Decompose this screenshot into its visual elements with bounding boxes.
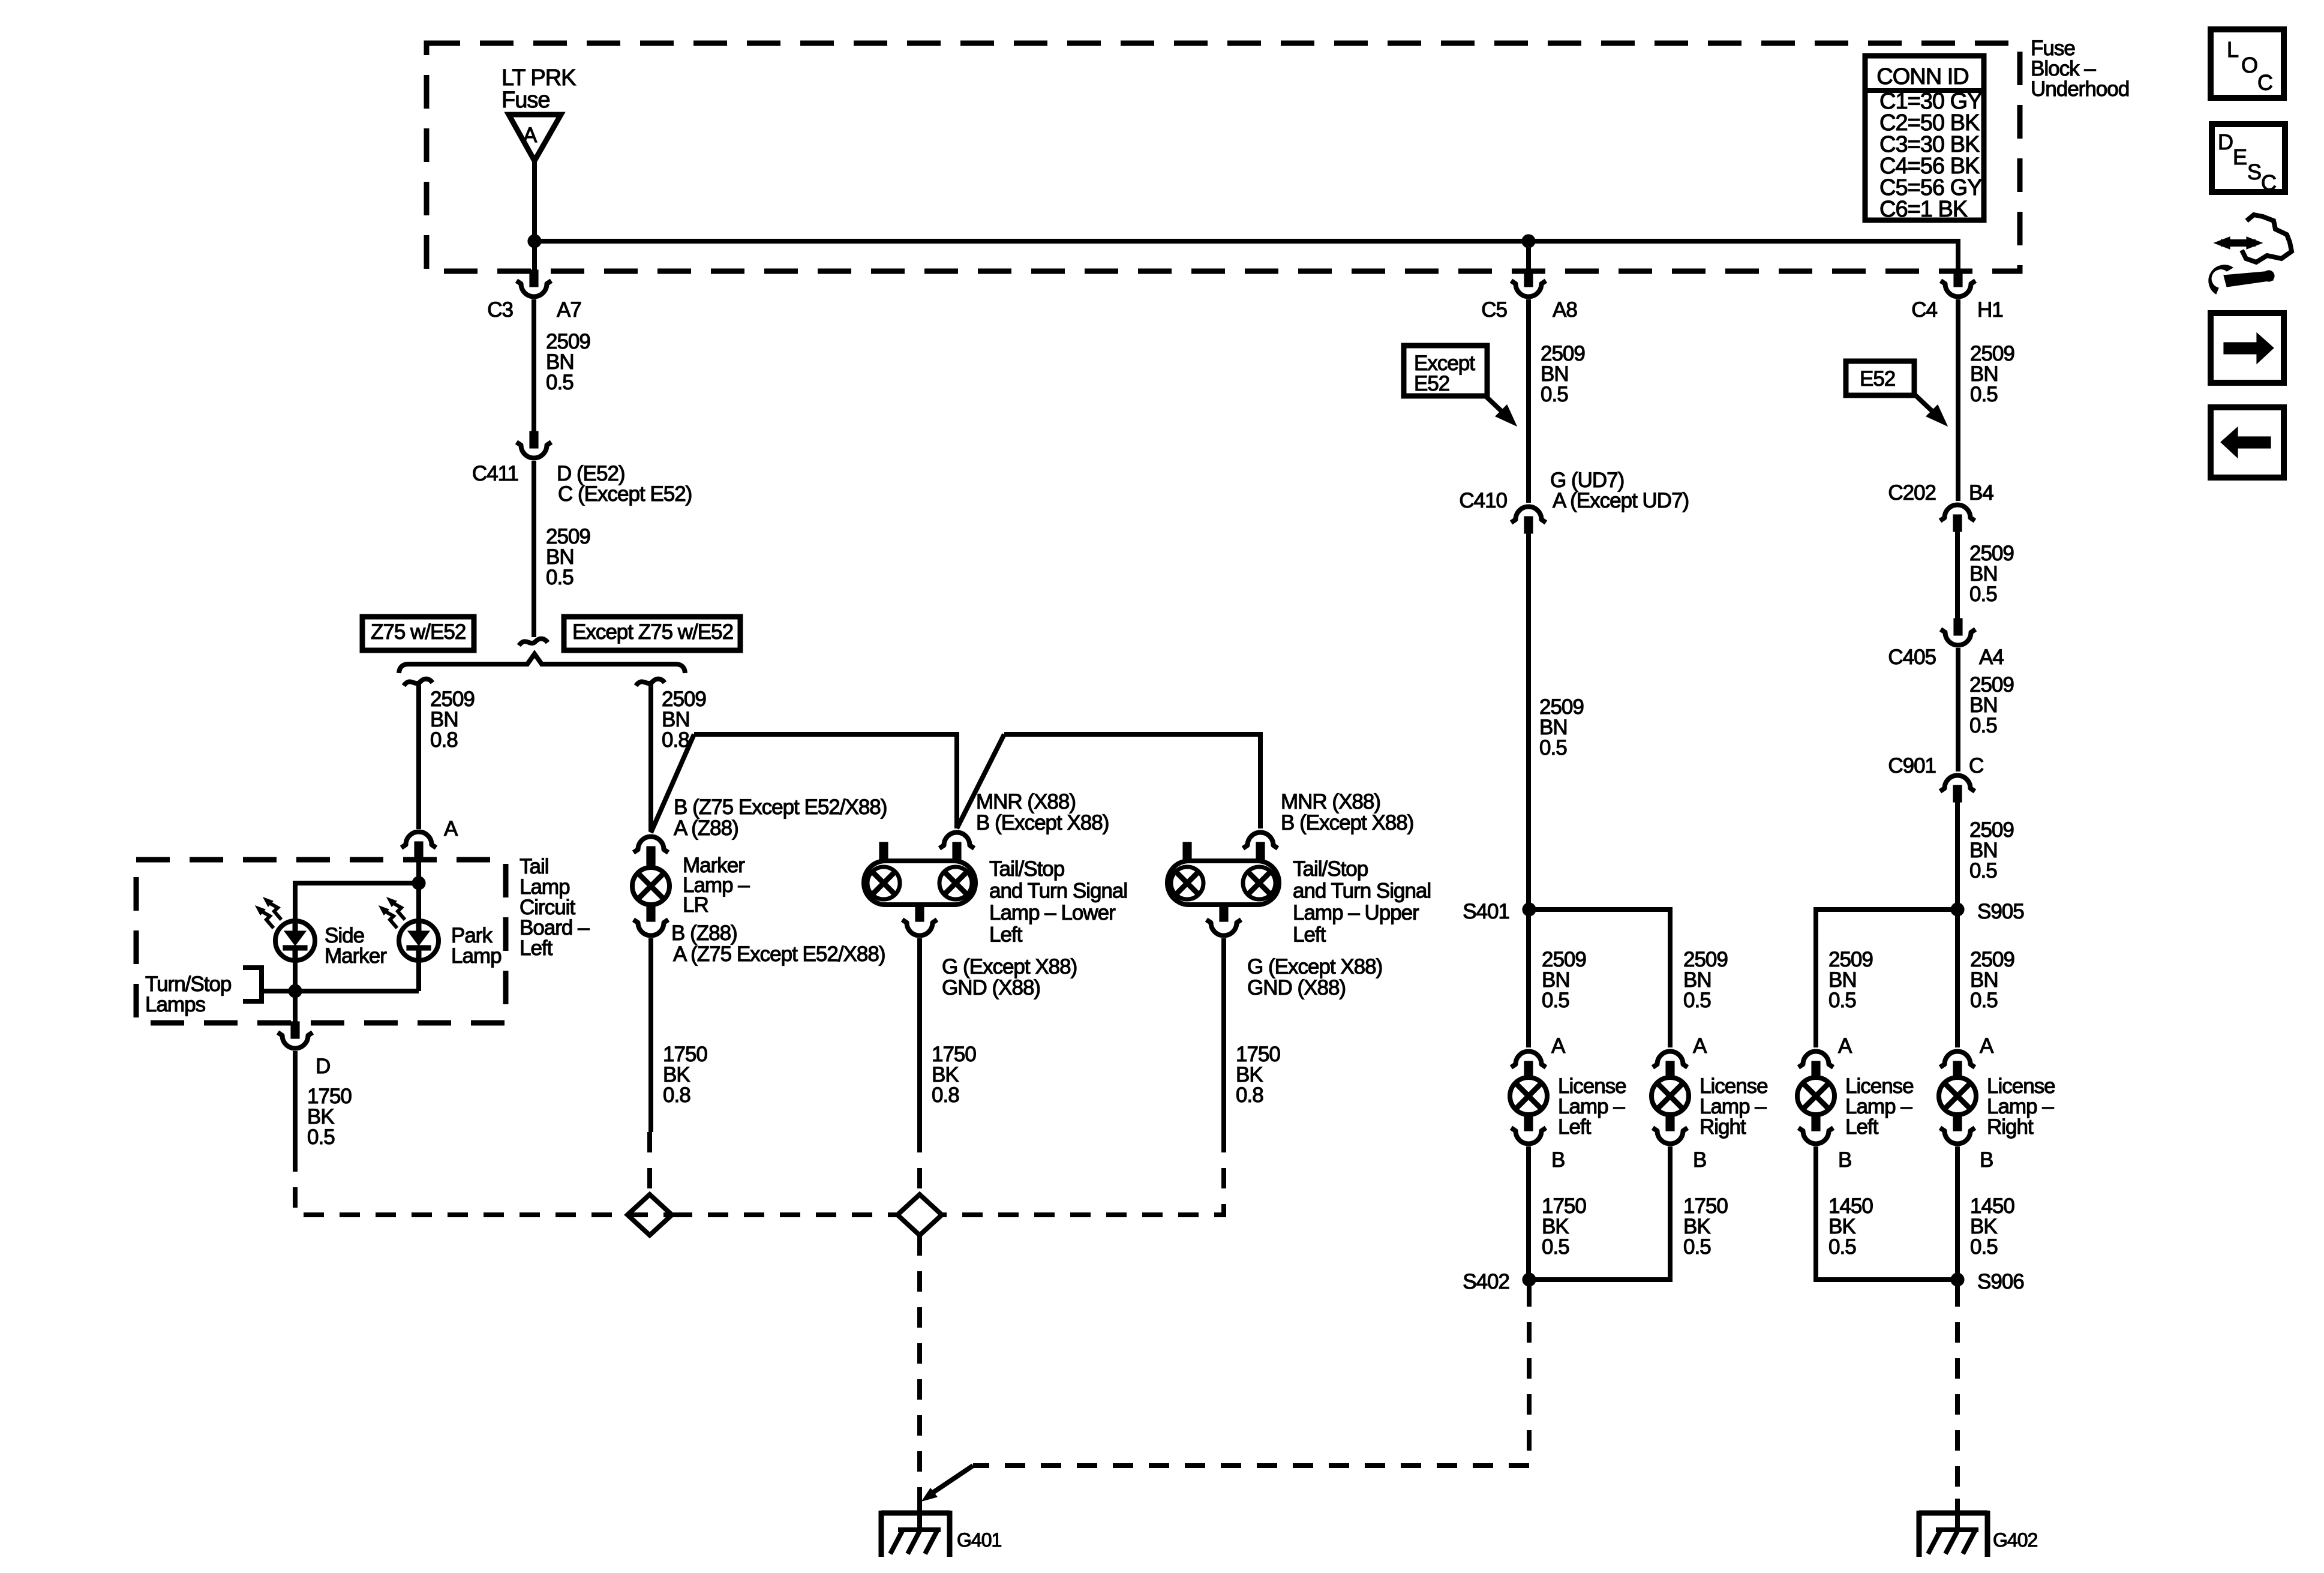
svg-text:Lamp – Upper: Lamp – Upper [1293, 901, 1419, 924]
svg-text:S401: S401 [1463, 900, 1509, 923]
svg-text:E52: E52 [1414, 372, 1449, 395]
svg-text:Left: Left [1845, 1115, 1879, 1139]
svg-text:E52: E52 [1860, 367, 1895, 391]
svg-text:Z75 w/E52: Z75 w/E52 [371, 620, 466, 644]
svg-text:0.5: 0.5 [1683, 989, 1711, 1012]
wire park lamp down [416, 883, 421, 920]
svg-text:Right: Right [1700, 1115, 1746, 1139]
svg-text:A: A [1980, 1034, 1994, 1058]
LED Park Lamp [399, 921, 439, 960]
svg-text:Lamp: Lamp [451, 944, 502, 968]
svg-text:G401: G401 [957, 1529, 1001, 1551]
wire license left to S906 [1816, 1146, 1957, 1280]
svg-text:C202: C202 [1888, 481, 1936, 505]
node S401 [1523, 903, 1536, 916]
svg-text:CONN ID: CONN ID [1876, 64, 1968, 89]
board ground bus [262, 989, 419, 993]
svg-text:0.8: 0.8 [663, 1083, 690, 1107]
branch squiggle left [404, 679, 433, 686]
svg-text:A: A [444, 817, 458, 840]
wire board to D [293, 991, 298, 1023]
splice (tail/stop) [897, 1194, 942, 1235]
marker lamp LR bulb [647, 848, 655, 868]
tail/stop feed bus 1 [694, 734, 957, 828]
svg-text:D: D [2218, 130, 2233, 154]
svg-text:LR: LR [683, 893, 708, 917]
svg-text:Right: Right [1987, 1115, 2034, 1139]
arrow Except E52 [1484, 395, 1506, 415]
connector C405 / pin A4 [1954, 619, 1962, 635]
bus wire inside fuse block [535, 239, 1958, 244]
svg-text:G402: G402 [1993, 1529, 2037, 1551]
icon DESC box [2212, 124, 2285, 192]
svg-text:Tail/Stop: Tail/Stop [1293, 857, 1368, 881]
icon arrow left box [2211, 407, 2284, 478]
tail/stop and turn signal lamp upper left [1183, 842, 1191, 862]
wire upper lamp ground [1221, 938, 1226, 1132]
node park/marker tap [412, 876, 425, 890]
svg-text:Marker: Marker [325, 944, 387, 968]
dashed wire D to ground bus [295, 1151, 627, 1215]
wire inside board horizontal [295, 881, 419, 885]
svg-text:0.8: 0.8 [662, 728, 689, 752]
wire lower lamp ground [917, 938, 922, 1132]
wire fuse to bus [532, 161, 537, 241]
wire C901 to S905 [1955, 801, 1960, 909]
tail/stop feed bus 2 [1004, 734, 1260, 828]
option split brace [399, 654, 685, 673]
svg-text:B4: B4 [1969, 481, 1993, 505]
svg-text:E: E [2233, 145, 2247, 169]
svg-text:A: A [1693, 1034, 1707, 1058]
svg-text:Left: Left [1293, 923, 1326, 947]
wire C3 to C411 [532, 299, 536, 431]
LED Side Marker [275, 921, 315, 960]
svg-text:C6=1 BK: C6=1 BK [1879, 197, 1968, 222]
svg-text:Left: Left [520, 936, 553, 960]
svg-text:0.5: 0.5 [1969, 714, 1997, 737]
connector C411 / pin D(E52) C(Except E52) [530, 431, 538, 448]
connector C3 / pin A7 [530, 270, 538, 287]
branch squiggle right [636, 679, 665, 686]
svg-text:0.8: 0.8 [1236, 1083, 1263, 1107]
svg-text:O: O [2241, 53, 2257, 77]
svg-text:A: A [1838, 1034, 1852, 1058]
wire left branch down to A [416, 682, 421, 829]
dashed wire S402 ground path [1527, 1286, 1532, 1466]
ground G401 [881, 1511, 950, 1516]
fuse block - underhood dashed box [427, 43, 2020, 271]
dashed ground bus left [627, 1212, 672, 1217]
svg-text:0.5: 0.5 [307, 1125, 335, 1149]
svg-text:0.8: 0.8 [932, 1083, 959, 1107]
svg-text:LT PRK: LT PRK [502, 65, 576, 91]
svg-text:B: B [1980, 1148, 1993, 1172]
connector tail/stop upper pin [1243, 833, 1278, 849]
svg-text:0.5: 0.5 [1969, 859, 1997, 882]
connector C901 / pin C [1940, 776, 1975, 792]
node board ground [289, 984, 302, 998]
svg-text:0.5: 0.5 [1970, 1235, 1998, 1259]
wire license right to S402 [1529, 1146, 1670, 1280]
wire C4 to C202 [1956, 299, 1960, 501]
turn/stop lamps bracket [243, 968, 262, 1001]
option box Z75 w/E52 [362, 617, 474, 650]
svg-text:0.5: 0.5 [1541, 383, 1568, 406]
svg-text:C3: C3 [487, 298, 513, 322]
svg-text:G (Except X88): G (Except X88) [1247, 955, 1382, 978]
light arrows Side Marker [268, 902, 281, 920]
wire side marker to gnd bus [293, 961, 298, 991]
svg-text:0.8: 0.8 [430, 728, 458, 752]
dashed wire lower lamp to splice [917, 1132, 922, 1193]
wire C411 to split [532, 461, 536, 637]
license lamp left (E52) [1798, 1052, 1833, 1068]
connector marker lamp pin [633, 837, 668, 853]
wire C410 to S401 [1526, 532, 1531, 909]
wire license right to S906 [1955, 1146, 1960, 1280]
svg-text:B (Except X88): B (Except X88) [1281, 811, 1413, 834]
connector A (tail lamp board) [401, 831, 436, 848]
svg-text:Except Z75 w/E52: Except Z75 w/E52 [572, 620, 733, 644]
svg-text:0.5: 0.5 [1542, 989, 1569, 1012]
svg-text:0.5: 0.5 [1969, 583, 1997, 606]
wire 1750 BK 0.5 [293, 1051, 298, 1151]
svg-text:C (Except E52): C (Except E52) [558, 482, 692, 506]
svg-text:0.5: 0.5 [1828, 989, 1856, 1012]
svg-text:Fuse: Fuse [502, 88, 550, 113]
svg-text:A8: A8 [1553, 298, 1577, 322]
ground G402 [1919, 1511, 1987, 1516]
svg-text:C4: C4 [1911, 298, 1937, 322]
tail/stop and turn signal lamp lower left [879, 842, 888, 862]
svg-text:0.5: 0.5 [1970, 383, 1998, 406]
svg-text:A (Z75 Except E52/X88): A (Z75 Except E52/X88) [673, 942, 885, 966]
node at fuse tap [528, 235, 541, 248]
connector D (board ground) [291, 1022, 299, 1038]
svg-text:0.5: 0.5 [1828, 1235, 1856, 1259]
wire S905 branch left [1816, 909, 1957, 1047]
svg-text:Lamps: Lamps [145, 993, 206, 1016]
svg-text:C901: C901 [1888, 754, 1936, 778]
svg-text:C411: C411 [472, 462, 518, 485]
wire C202 to C405 [1955, 530, 1960, 622]
svg-text:and Turn Signal: and Turn Signal [989, 879, 1127, 903]
svg-text:Underhood: Underhood [2031, 77, 2129, 101]
wire S401 branch right [1529, 909, 1670, 1047]
license lamp left (rear) [1511, 1052, 1546, 1068]
svg-text:B (Z75 Except E52/X88): B (Z75 Except E52/X88) [674, 795, 887, 819]
svg-text:0.5: 0.5 [1539, 736, 1567, 760]
dashed wire splice to G401 [917, 1235, 922, 1500]
svg-text:and Turn Signal: and Turn Signal [1293, 879, 1431, 903]
wire right branch down to marker lamp [648, 682, 653, 831]
connector C202 / pin B4 [1940, 505, 1975, 521]
wire bus corner down to C4 [1956, 239, 1960, 271]
node at C5 tap [1522, 235, 1535, 248]
wire diagonal to bus 2 [957, 734, 1004, 828]
connector tail/stop lower pin [939, 833, 974, 849]
wire C405 to C901 [1956, 648, 1960, 772]
svg-text:MNR (X88): MNR (X88) [1281, 790, 1380, 813]
svg-text:B (Except X88): B (Except X88) [976, 811, 1109, 834]
svg-text:GND (X88): GND (X88) [1247, 976, 1346, 999]
svg-text:C: C [1969, 754, 1983, 778]
wire A into board [416, 857, 421, 883]
dashed ground bus mid [672, 1212, 897, 1217]
connector C4 / pin H1 [1954, 270, 1962, 287]
splice (marker) [627, 1194, 672, 1235]
svg-text:Left: Left [989, 923, 1023, 947]
svg-text:G (Except X88): G (Except X88) [942, 955, 1077, 978]
license lamp right (E52) [1940, 1052, 1975, 1068]
svg-text:A7: A7 [557, 298, 581, 322]
wire into C3 [532, 241, 537, 271]
svg-text:S: S [2247, 160, 2261, 184]
fuse LT PRK (triangle) [509, 115, 561, 161]
svg-text:C410: C410 [1459, 489, 1507, 512]
wire C5 to C410 [1526, 299, 1531, 503]
svg-text:A (Z88): A (Z88) [674, 816, 738, 840]
svg-text:0.5: 0.5 [1542, 1235, 1569, 1259]
wire bus to C5 [1526, 241, 1531, 271]
svg-text:B: B [1693, 1148, 1706, 1172]
connector C410 / pin G(UD7) A(Except UD7) [1511, 506, 1546, 523]
svg-text:0.5: 0.5 [546, 371, 574, 394]
svg-text:B: B [1551, 1148, 1565, 1172]
svg-text:B: B [1838, 1148, 1851, 1172]
wire diagonal to tail/stop bus 1 [651, 734, 694, 833]
option split connector squiggle [519, 639, 548, 646]
CONN ID table [1865, 56, 1984, 220]
dashed wire marker to splice [647, 1132, 652, 1193]
svg-text:Left: Left [1558, 1115, 1592, 1139]
icon wrench / double arrow [2242, 215, 2292, 262]
svg-text:Tail/Stop: Tail/Stop [989, 857, 1064, 881]
svg-text:C5: C5 [1481, 298, 1507, 322]
icon arrow right box [2211, 313, 2284, 383]
svg-text:A: A [523, 124, 538, 147]
wire park lamp to gnd bus [416, 961, 421, 991]
svg-text:S402: S402 [1463, 1270, 1509, 1293]
svg-text:GND (X88): GND (X88) [942, 976, 1040, 999]
jog into G401 [929, 1466, 973, 1495]
node S906 [1951, 1273, 1964, 1286]
wire S905 down [1955, 909, 1960, 1047]
license lamp right (rear) [1653, 1052, 1688, 1068]
wire S401 down [1526, 909, 1531, 1047]
option box Except E52 [1404, 346, 1487, 396]
arrow E52 [1915, 395, 1936, 415]
svg-text:0.5: 0.5 [1970, 989, 1998, 1012]
svg-text:C405: C405 [1888, 646, 1936, 669]
svg-text:B (Z88): B (Z88) [671, 921, 737, 945]
svg-text:C: C [2257, 70, 2272, 95]
svg-text:A: A [1551, 1034, 1566, 1058]
wire marker lamp ground [648, 938, 653, 1132]
svg-text:C: C [2261, 170, 2276, 195]
light arrows Park Lamp [392, 902, 405, 920]
svg-text:0.5: 0.5 [546, 566, 574, 589]
wire license left to S402 [1526, 1146, 1531, 1280]
node S402 [1523, 1273, 1536, 1286]
wire to side marker [293, 881, 298, 920]
svg-text:H1: H1 [1977, 298, 2003, 322]
svg-text:L: L [2227, 37, 2238, 62]
svg-text:S905: S905 [1977, 900, 2024, 923]
svg-text:MNR (X88): MNR (X88) [976, 790, 1076, 813]
connector C5 / pin A8 [1524, 270, 1533, 287]
svg-text:A (Except UD7): A (Except UD7) [1553, 489, 1689, 512]
svg-text:D: D [316, 1055, 330, 1078]
svg-text:S906: S906 [1977, 1270, 2024, 1293]
svg-text:0.5: 0.5 [1683, 1235, 1711, 1259]
tail lamp circuit board dashed box [136, 860, 506, 1023]
svg-text:Lamp – Lower: Lamp – Lower [989, 901, 1116, 924]
dashed wire S906 to G402 [1955, 1286, 1960, 1500]
option box E52 [1846, 361, 1914, 395]
option box Except Z75 w/E52 [564, 617, 740, 650]
svg-text:A4: A4 [1979, 646, 2004, 669]
icon LOC box [2211, 29, 2284, 98]
node S905 [1951, 903, 1964, 916]
dashed wire upper lamp to ground bus [942, 1132, 1224, 1215]
